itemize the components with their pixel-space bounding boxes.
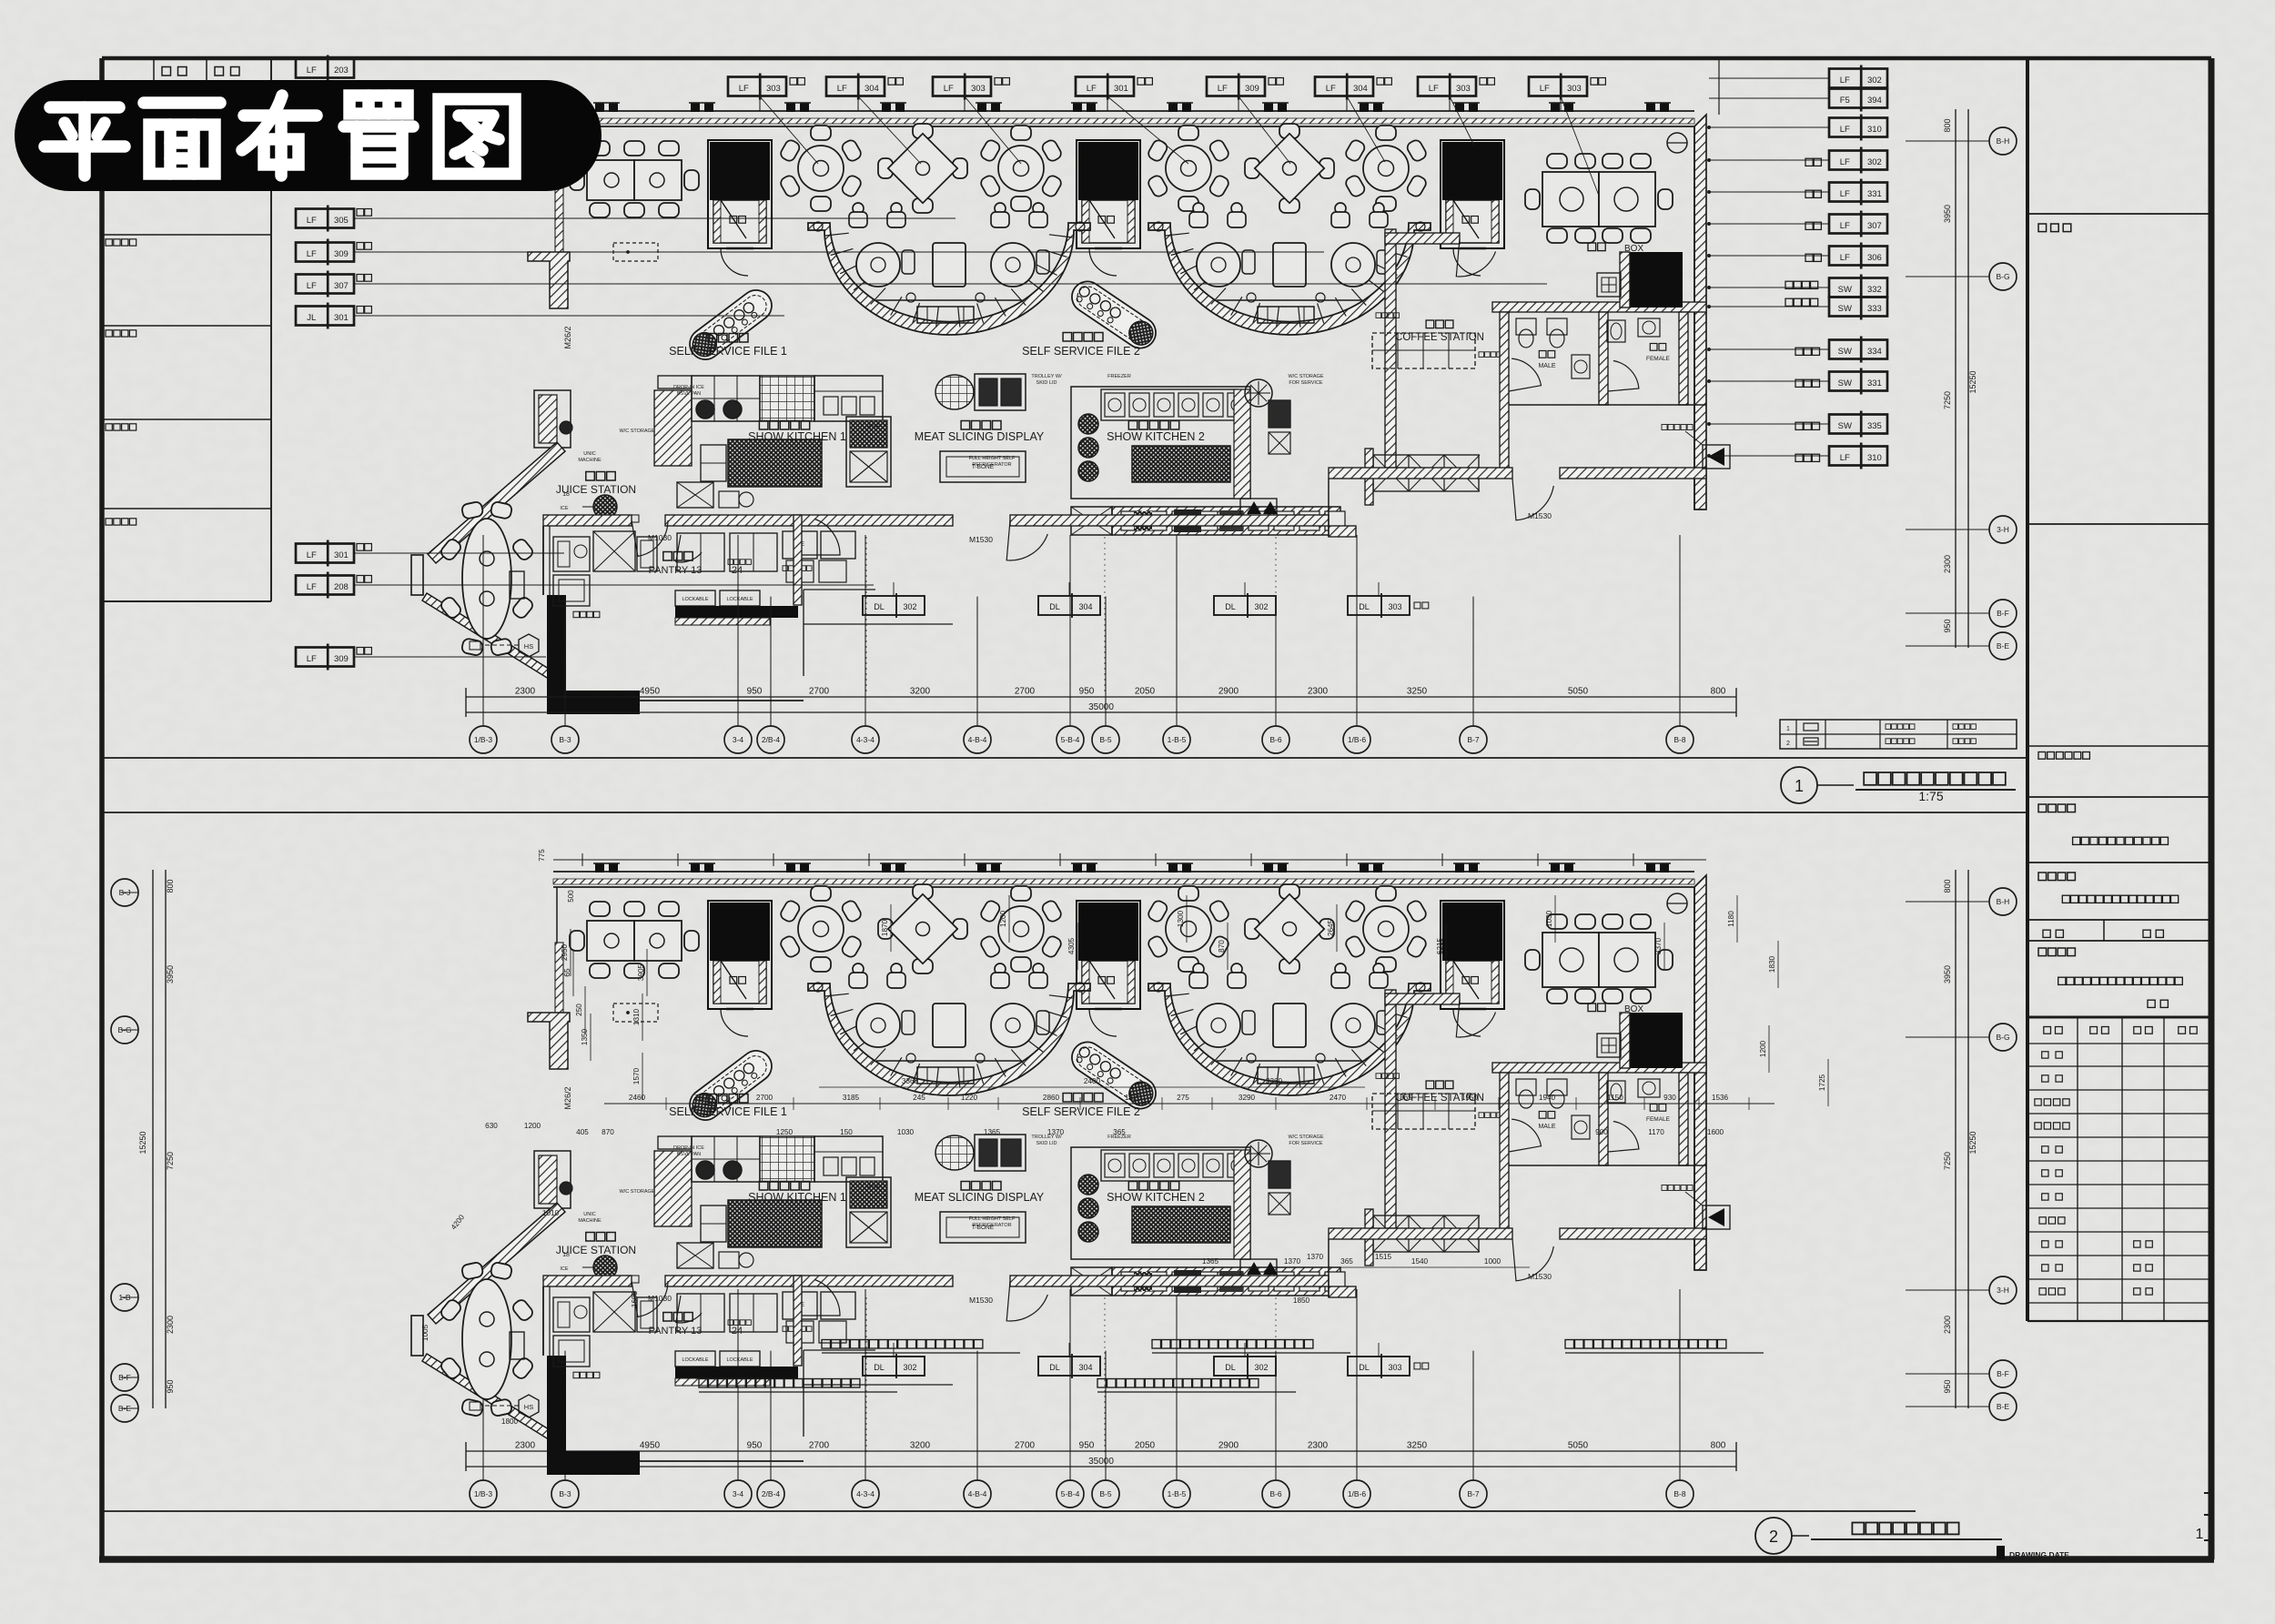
svg-text:LF: LF: [1326, 84, 1336, 94]
svg-text:M26/2: M26/2: [563, 1086, 572, 1109]
svg-text:302: 302: [1254, 602, 1268, 611]
svg-text:UNIC: UNIC: [583, 451, 595, 457]
svg-text:3185: 3185: [843, 1094, 860, 1102]
grid circle marker top-right: [1667, 133, 1687, 153]
svg-text:LF: LF: [1840, 189, 1850, 199]
svg-text:304: 304: [864, 84, 879, 94]
right dim column top plan: [1955, 109, 1956, 648]
svg-text:1370: 1370: [1047, 1128, 1065, 1136]
svg-text:1850: 1850: [1293, 1296, 1310, 1305]
self-service pill island at 1224,346: [1066, 276, 1161, 354]
svg-text:307: 307: [1867, 221, 1882, 231]
svg-text:COFFEE STATION: COFFEE STATION: [1395, 332, 1484, 343]
svg-text:394: 394: [1867, 96, 1882, 106]
svg-text:35000: 35000: [1088, 1457, 1114, 1467]
misc dims lower: [1182, 1266, 1530, 1268]
svg-text:1200: 1200: [524, 1122, 541, 1130]
svg-text:800: 800: [1943, 118, 1952, 132]
pantry cabinets row: [553, 537, 590, 571]
svg-text:1870: 1870: [881, 919, 889, 936]
svg-text:SHOW KITCHEN 2: SHOW KITCHEN 2: [1107, 430, 1205, 443]
svg-text:1570: 1570: [632, 1067, 641, 1084]
svg-text:950: 950: [166, 1379, 175, 1393]
svg-text:303: 303: [1388, 602, 1401, 611]
svg-text:950: 950: [1079, 687, 1095, 697]
svg-text:MACHINE: MACHINE: [578, 458, 602, 463]
svg-text:FREEZER: FREEZER: [1107, 374, 1131, 379]
svg-text:M1530: M1530: [1528, 511, 1552, 520]
coffee station: [1426, 320, 1453, 328]
svg-text:1000: 1000: [1484, 1257, 1501, 1266]
sheet border frame: [102, 56, 2211, 61]
svg-text:SELF SERVICE FILE 2: SELF SERVICE FILE 2: [1022, 345, 1140, 358]
svg-text:2700: 2700: [1015, 687, 1036, 697]
svg-text:B-7: B-7: [1467, 735, 1480, 744]
kitchen2 long bottom counter: [1112, 507, 1340, 535]
svg-text:301: 301: [334, 550, 349, 560]
svg-text:332: 332: [1867, 285, 1882, 295]
svg-text:1830: 1830: [1768, 955, 1776, 973]
buffet U-counter at 1043: [808, 203, 1090, 335]
title block note section labels: [2038, 224, 2071, 232]
svg-text:1310: 1310: [632, 1008, 641, 1025]
svg-text:1300: 1300: [1177, 910, 1185, 927]
round tables row: [779, 126, 863, 211]
svg-text:LF: LF: [1218, 84, 1228, 94]
svg-text:950: 950: [1943, 619, 1952, 632]
svg-text:5050: 5050: [1568, 1441, 1589, 1451]
svg-text:SW: SW: [1838, 378, 1852, 388]
svg-text:3200: 3200: [910, 1441, 931, 1451]
svg-text:3360: 3360: [902, 1077, 919, 1085]
svg-text:W/C STORAGE: W/C STORAGE: [619, 429, 654, 434]
svg-text:4305: 4305: [1067, 937, 1076, 954]
svg-text:B-3: B-3: [559, 735, 571, 744]
svg-text:3290: 3290: [1239, 1094, 1256, 1102]
svg-text:2900: 2900: [1218, 1441, 1239, 1451]
svg-text:B-G: B-G: [1996, 1033, 2009, 1042]
svg-text:405: 405: [576, 1128, 589, 1136]
svg-text:950: 950: [1943, 1379, 1952, 1393]
pier T-2: [534, 390, 571, 448]
svg-text:3360: 3360: [1266, 1077, 1283, 1085]
svg-text:B-E: B-E: [1997, 1402, 2010, 1411]
svg-text:LOCKABLE: LOCKABLE: [682, 597, 708, 602]
svg-text:15250: 15250: [1968, 1131, 1977, 1154]
oval dining table 8 chairs: [439, 501, 534, 657]
svg-text:PANTRY 13: PANTRY 13: [649, 565, 703, 576]
self service labels: [708, 334, 748, 343]
svg-text:7250: 7250: [1943, 1152, 1952, 1170]
black service shaft right: [1630, 252, 1683, 308]
dimension chain row at 766: [466, 696, 1736, 698]
coffee storage X boxes: [1373, 455, 1479, 491]
svg-text:1/B-6: 1/B-6: [1348, 1489, 1367, 1498]
left label boxes: [296, 209, 354, 228]
svg-text:2300: 2300: [1943, 1316, 1952, 1334]
lower-right wall step: [1329, 526, 1356, 537]
juice station: [586, 472, 615, 481]
svg-text:301: 301: [334, 313, 349, 323]
long 10-seat table: [1525, 154, 1673, 243]
svg-text:18: 18: [562, 491, 570, 498]
svg-text:LF: LF: [307, 249, 317, 259]
svg-text:4-B-4: 4-B-4: [968, 735, 987, 744]
svg-text:2/B-4: 2/B-4: [762, 735, 781, 744]
svg-text:302: 302: [1867, 157, 1882, 167]
svg-text:DL: DL: [1049, 602, 1060, 611]
svg-text:1370: 1370: [1307, 1253, 1324, 1261]
svg-text:F5: F5: [1840, 96, 1850, 106]
dashed ceiling rect near pier: [613, 243, 658, 261]
show kitchen 2: [1071, 387, 1250, 499]
svg-text:331: 331: [1867, 378, 1882, 388]
svg-text:2400: 2400: [1084, 1077, 1101, 1085]
svg-text:DRAWING DATE: DRAWING DATE: [2009, 1550, 2069, 1559]
svg-text:3-4: 3-4: [733, 1489, 744, 1498]
double triangle marker on wall: [1240, 499, 1277, 517]
svg-text:3950: 3950: [1943, 965, 1952, 983]
svg-text:1: 1: [1786, 726, 1790, 732]
svg-text:250: 250: [575, 1004, 583, 1016]
self-service pill island at 803,357: [683, 284, 778, 366]
svg-text:302: 302: [1867, 76, 1882, 86]
svg-text:LF: LF: [307, 582, 317, 592]
hexagon HS marker: [519, 634, 539, 657]
svg-text:B-H: B-H: [1997, 897, 2010, 906]
svg-text:SKID LID: SKID LID: [1036, 380, 1057, 386]
svg-text:24: 24: [732, 565, 743, 576]
corridor walls below toilets: [1329, 468, 1512, 479]
svg-text:1200: 1200: [999, 910, 1007, 927]
svg-text:B-8: B-8: [1673, 1489, 1686, 1498]
svg-text:2700: 2700: [809, 1441, 830, 1451]
show kitchen 1: [654, 390, 692, 466]
svg-text:PREP: PREP: [867, 424, 881, 429]
svg-text:B-H: B-H: [1997, 136, 2010, 146]
detail 2 title: plan 2: [1755, 1518, 1792, 1554]
svg-text:500: 500: [567, 890, 575, 903]
svg-text:1/B-3: 1/B-3: [474, 1489, 493, 1498]
svg-text:LF: LF: [1540, 84, 1550, 94]
svg-text:365: 365: [1340, 1257, 1353, 1266]
svg-text:LF: LF: [739, 84, 749, 94]
right zone divider wall vertical: [1385, 229, 1396, 468]
svg-text:1370: 1370: [1284, 1257, 1301, 1266]
signature table: [2027, 1043, 2211, 1044]
svg-text:1220: 1220: [961, 1094, 978, 1102]
concrete curb notes with underlines: [822, 1340, 983, 1349]
svg-text:6215: 6215: [1436, 937, 1444, 954]
svg-text:MALE: MALE: [1538, 363, 1555, 369]
svg-text:310: 310: [1867, 453, 1882, 463]
svg-text:930: 930: [1663, 1094, 1676, 1102]
svg-text:B-8: B-8: [1673, 735, 1686, 744]
svg-text:4950: 4950: [640, 687, 661, 697]
svg-text:HS: HS: [524, 642, 533, 651]
bottom strip separator: [102, 1510, 1916, 1512]
svg-text:1: 1: [1795, 777, 1804, 795]
svg-text:304: 304: [1078, 602, 1092, 611]
pantry label: [663, 552, 693, 561]
svg-text:3370: 3370: [1654, 937, 1663, 954]
svg-text:3250: 3250: [1407, 687, 1428, 697]
svg-text:B-5: B-5: [1099, 735, 1112, 744]
svg-text:ICE: ICE: [560, 506, 569, 511]
diagonal wall to alcove: [428, 442, 565, 563]
svg-text:B-6: B-6: [1269, 1489, 1282, 1498]
male toilet fixtures: [1516, 318, 1536, 335]
svg-text:LF: LF: [307, 550, 317, 560]
svg-text:2300: 2300: [1308, 687, 1329, 697]
svg-text:FOR SERVICE: FOR SERVICE: [1289, 380, 1323, 386]
svg-text:2950: 2950: [561, 943, 569, 961]
upper cabinets in pantry: [677, 533, 724, 571]
top exterior wall with mullions: [553, 110, 1694, 112]
svg-text:1600: 1600: [1707, 1128, 1724, 1136]
svg-text:5-B-4: 5-B-4: [1061, 735, 1080, 744]
right dim column bottom plan: [1955, 870, 1956, 1408]
svg-text:B-G: B-G: [1996, 272, 2009, 281]
two label boxes above banner edge: [296, 59, 354, 78]
svg-text:35000: 35000: [1088, 702, 1114, 712]
svg-text:MEAT SLICING DISPLAY: MEAT SLICING DISPLAY: [915, 430, 1045, 443]
toilets block: [1492, 302, 1706, 312]
svg-text:4-B-4: 4-B-4: [968, 1489, 987, 1498]
svg-text:2860: 2860: [1043, 1094, 1060, 1102]
svg-text:309: 309: [334, 249, 349, 259]
dumbwaiter shaft 1: [708, 140, 772, 276]
left window wall + piers: [556, 126, 558, 182]
dimension chain row at 1595: [466, 1450, 1736, 1452]
right label boxes column: [1829, 69, 1887, 88]
svg-text:1725: 1725: [1818, 1074, 1826, 1091]
svg-text:SHOW KITCHEN 1: SHOW KITCHEN 1: [748, 430, 846, 443]
svg-text:1: 1: [2196, 1527, 2204, 1542]
svg-text:B-F: B-F: [1997, 609, 2009, 618]
svg-text:LF: LF: [307, 654, 317, 664]
right exterior wall: [1694, 115, 1706, 509]
svg-text:LF: LF: [1840, 157, 1850, 167]
svg-text:2470: 2470: [1330, 1094, 1347, 1102]
svg-text:950: 950: [747, 1441, 763, 1451]
svg-text:3-H: 3-H: [1997, 1286, 2009, 1295]
svg-text:3250: 3250: [1407, 1441, 1428, 1451]
svg-text:2900: 2900: [1218, 687, 1239, 697]
svg-text:DL: DL: [1225, 602, 1236, 611]
DL label boxes row: [863, 596, 925, 615]
svg-text:2: 2: [1769, 1528, 1778, 1546]
svg-text:3905: 3905: [637, 963, 645, 981]
svg-text:1/B-6: 1/B-6: [1348, 735, 1367, 744]
svg-text:303: 303: [1567, 84, 1582, 94]
svg-text:1030: 1030: [1545, 910, 1553, 927]
svg-text:SELF SERVICE FILE 1: SELF SERVICE FILE 1: [669, 345, 787, 358]
svg-text:B-7: B-7: [1467, 1489, 1480, 1498]
leader dots row to DL boxes: [893, 582, 895, 596]
svg-text:FULL HEIGHT SELF: FULL HEIGHT SELF: [969, 456, 1016, 461]
svg-text:B-6: B-6: [1269, 735, 1282, 744]
svg-text:1536: 1536: [1712, 1094, 1729, 1102]
svg-text:65: 65: [563, 968, 571, 977]
svg-text:310: 310: [1867, 125, 1882, 135]
svg-text:15250: 15250: [138, 1131, 147, 1154]
svg-text:950: 950: [747, 687, 763, 697]
svg-text:309: 309: [1245, 84, 1259, 94]
svg-text:1:75: 1:75: [1918, 789, 1943, 803]
svg-text:5-B-4: 5-B-4: [1061, 1489, 1080, 1498]
svg-text:335: 335: [1867, 421, 1882, 431]
svg-text:LOCKABLE: LOCKABLE: [726, 597, 753, 602]
svg-text:2300: 2300: [166, 1316, 175, 1334]
svg-text:2: 2: [1786, 741, 1790, 747]
left dim column bottom plan: [152, 870, 154, 1408]
svg-text:2300: 2300: [1943, 555, 1952, 573]
horizontal separator below detail-1 title: [102, 812, 2027, 813]
svg-text:SW: SW: [1838, 347, 1852, 357]
svg-text:865: 865: [1400, 1094, 1412, 1102]
leader endpoint dots: [1707, 126, 1710, 128]
small sink square w arrow top: [1597, 273, 1621, 297]
svg-text:1010: 1010: [542, 1209, 560, 1217]
svg-text:7250: 7250: [166, 1152, 175, 1170]
svg-text:LF: LF: [1840, 76, 1850, 86]
corridor floor lines: [640, 700, 804, 701]
svg-text:800: 800: [1943, 879, 1952, 893]
svg-text:1170: 1170: [1648, 1128, 1664, 1136]
svg-text:4-3-4: 4-3-4: [856, 735, 875, 744]
svg-text:2300: 2300: [1308, 1441, 1329, 1451]
svg-text:REFRIGERATOR: REFRIGERATOR: [972, 462, 1011, 468]
interior column grid dashed verticals: [865, 537, 867, 691]
square 8-seat table: [570, 141, 699, 217]
svg-text:1/B-3: 1/B-3: [474, 735, 493, 744]
svg-text:BSVL PAN: BSVL PAN: [677, 391, 701, 397]
buffet U-counter at 1417: [1148, 203, 1431, 335]
svg-text:LF: LF: [1840, 221, 1850, 231]
svg-text:FEMALE: FEMALE: [1646, 356, 1671, 362]
svg-text:775: 775: [538, 849, 546, 862]
svg-text:303: 303: [766, 84, 781, 94]
meat slicing display: [935, 375, 974, 409]
svg-text:B-E: B-E: [1997, 641, 2010, 651]
mini legend table near detail 1: [1780, 720, 2017, 749]
detail 1 title: plan 1 1:75: [1781, 767, 1817, 803]
svg-text:870: 870: [1218, 940, 1226, 953]
svg-text:950: 950: [1079, 1441, 1095, 1451]
svg-text:900: 900: [1595, 1128, 1608, 1136]
svg-text:2050: 2050: [1135, 687, 1156, 697]
svg-text:800: 800: [1711, 1441, 1726, 1451]
svg-text:2700: 2700: [809, 687, 830, 697]
svg-text:309: 309: [334, 654, 349, 664]
svg-text:2460: 2460: [629, 1094, 646, 1102]
svg-text:365: 365: [1113, 1128, 1126, 1136]
svg-text:LF: LF: [1840, 453, 1850, 463]
svg-text:SW: SW: [1838, 421, 1852, 431]
svg-text:2300: 2300: [515, 1441, 536, 1451]
leaders from top boxes to tables: [760, 96, 818, 164]
svg-text:LF: LF: [1840, 125, 1850, 135]
top row of fixture label boxes: [728, 77, 786, 96]
svg-text:5050: 5050: [1568, 687, 1589, 697]
small side table alcove: [510, 571, 524, 599]
lockable cabinets + black band: [675, 590, 715, 606]
svg-text:M26/2: M26/2: [563, 326, 572, 348]
title block: [2026, 58, 2029, 1321]
svg-text:M1530: M1530: [969, 535, 993, 544]
svg-text:LF: LF: [307, 216, 317, 226]
svg-text:1180: 1180: [1727, 911, 1735, 927]
svg-text:2050: 2050: [1135, 1441, 1156, 1451]
svg-text:3200: 3200: [910, 687, 931, 697]
svg-text:4-3-4: 4-3-4: [856, 1489, 875, 1498]
svg-text:1365: 1365: [984, 1128, 1001, 1136]
svg-text:LF: LF: [307, 281, 317, 291]
svg-text:275: 275: [1177, 1094, 1189, 1102]
alcove bay walls: [411, 555, 423, 595]
svg-text:LF: LF: [1429, 84, 1439, 94]
svg-text:1005: 1005: [421, 1324, 430, 1341]
svg-text:1200: 1200: [1759, 1040, 1767, 1057]
svg-text:LF: LF: [944, 84, 954, 94]
svg-text:2700: 2700: [1015, 1441, 1036, 1451]
svg-text:2645: 2645: [1327, 919, 1335, 936]
svg-text:800: 800: [1711, 687, 1726, 697]
svg-text:306: 306: [1867, 253, 1882, 263]
svg-text:1940: 1940: [1539, 1094, 1556, 1102]
svg-text:304: 304: [1353, 84, 1368, 94]
svg-text:B-5: B-5: [1099, 1489, 1112, 1498]
svg-text:203: 203: [334, 66, 349, 76]
second dim line: [819, 1086, 1365, 1088]
svg-text:870: 870: [602, 1128, 614, 1136]
svg-text:245: 245: [913, 1094, 925, 1102]
svg-text:302: 302: [903, 602, 916, 611]
svg-text:SW: SW: [1838, 304, 1852, 314]
grid line near top-right corner: [1718, 58, 1720, 115]
svg-text:1350: 1350: [581, 1028, 589, 1045]
svg-text:1605: 1605: [631, 1290, 639, 1307]
svg-text:B-F: B-F: [1997, 1369, 2009, 1378]
svg-text:SW: SW: [1838, 285, 1852, 295]
svg-text:800: 800: [166, 879, 175, 893]
horizontal separator above detail-1 title: [102, 757, 2027, 759]
svg-text:LF: LF: [307, 66, 317, 76]
svg-text:2/B-4: 2/B-4: [762, 1489, 781, 1498]
fire hydrant symbol: [1703, 445, 1730, 469]
svg-text:JL: JL: [307, 313, 316, 323]
svg-text:3-4: 3-4: [733, 735, 744, 744]
svg-text:1030: 1030: [897, 1128, 915, 1136]
svg-text:1365: 1365: [1202, 1257, 1219, 1266]
svg-text:1540: 1540: [1411, 1257, 1429, 1266]
svg-text:1250: 1250: [776, 1128, 794, 1136]
svg-text:1-B-5: 1-B-5: [1168, 1489, 1187, 1498]
long horizontal dim line mid bottom plan: [604, 1103, 1774, 1105]
svg-text:B-3: B-3: [559, 1489, 571, 1498]
svg-text:1800: 1800: [501, 1417, 519, 1426]
black curb band bottom of pantry: [547, 691, 640, 714]
pier T-1: [528, 252, 570, 308]
svg-text:301: 301: [1114, 84, 1128, 94]
svg-text:3950: 3950: [166, 965, 175, 983]
pantry right wall: [794, 515, 802, 605]
svg-text:333: 333: [1867, 304, 1882, 314]
svg-text:TROLLEY W/: TROLLEY W/: [1031, 374, 1062, 379]
svg-text:303: 303: [971, 84, 986, 94]
svg-text:1515: 1515: [1375, 1253, 1392, 1261]
